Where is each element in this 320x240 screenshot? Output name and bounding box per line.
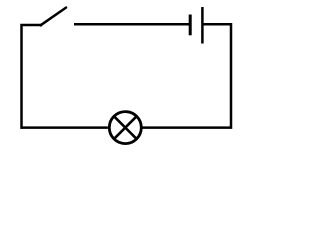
battery B1 short plate (negative) xyxy=(189,15,192,36)
wire: right vertical xyxy=(143,24,231,127)
lamp L1 cross stroke 2 xyxy=(114,116,137,139)
lamp L1 circle xyxy=(109,112,141,144)
wire: bottom-left to lamp xyxy=(22,126,108,129)
lamp L1 cross stroke 1 xyxy=(114,116,137,139)
wire: battery to top-right corner xyxy=(202,23,231,26)
wire: switch fixed contact to battery xyxy=(74,23,189,26)
wire: left lead (switch stub, left vertical, corner) xyxy=(22,25,42,128)
switch S1 blade (open) xyxy=(41,8,67,26)
battery B1 long plate (positive) xyxy=(201,7,204,44)
